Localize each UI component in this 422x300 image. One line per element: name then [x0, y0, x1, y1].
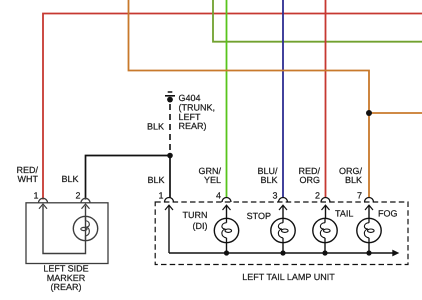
arrow pin 7 tail — [365, 205, 373, 210]
junction TAIL — [322, 250, 327, 255]
connector arc pin 2 left marker — [81, 198, 90, 202]
svg-text:LEFT TAIL LAMP UNIT: LEFT TAIL LAMP UNIT — [242, 272, 335, 282]
arrow pin 4 tail — [223, 205, 231, 210]
wire ORG/BLK (orange, top edge down, right, down to pin 7) — [129, 0, 370, 198]
wire BLU/BLK (blue, top edge down to pin 3) — [282, 0, 284, 198]
bulb FOG — [357, 218, 381, 242]
wire pin 4 to bulb — [226, 206, 228, 218]
svg-text:BLK: BLK — [147, 175, 164, 185]
wire bulb TAIL to bus — [324, 243, 326, 253]
svg-text:BLK: BLK — [345, 175, 362, 185]
arrow pin 1 tail — [165, 205, 173, 210]
bulb TAIL — [313, 218, 337, 242]
svg-text:BLK: BLK — [260, 175, 277, 185]
wire RED/WHT (red, top-left corner to right edge and down to pin 1 of left side marker) — [43, 14, 422, 200]
junction BLK — [167, 153, 173, 159]
svg-text:TURN: TURN — [183, 210, 208, 220]
left side marker connector box — [26, 203, 108, 264]
wire GRN (dull green, from top edge down then right to right edge) — [213, 0, 422, 42]
filament FOG — [368, 218, 370, 242]
svg-text:3: 3 — [272, 191, 277, 201]
svg-text:(DI): (DI) — [193, 221, 208, 231]
filament TURN — [226, 218, 228, 242]
wire pin 1 tail down — [168, 206, 170, 253]
svg-text:FOG: FOG — [378, 209, 398, 219]
wire BLK solid (junction to left marker pin 2 and down to tail lamp pin 1) — [86, 156, 171, 200]
svg-text:STOP: STOP — [247, 211, 271, 221]
wire pin 7 to bulb — [368, 206, 370, 218]
connector arc pin 2 tail — [321, 198, 330, 203]
wire GRN/YEL (bright green, top edge down to pin 4) — [226, 0, 228, 198]
svg-text:7: 7 — [357, 191, 362, 201]
svg-text:WHT: WHT — [18, 174, 39, 184]
svg-text:2: 2 — [75, 191, 80, 201]
svg-text:4: 4 — [216, 191, 221, 201]
arrow pin 1 left marker — [39, 204, 47, 209]
connector arc pin 1 tail — [165, 198, 174, 203]
svg-text:REAR): REAR) — [179, 121, 207, 131]
connector arc pin 4 tail — [222, 198, 231, 203]
filament TAIL — [324, 218, 326, 242]
wire ORG branch to right edge — [369, 112, 422, 114]
svg-text:1: 1 — [158, 191, 163, 201]
connector arc pin 7 tail — [365, 198, 374, 203]
junction FOG — [366, 250, 371, 255]
svg-text:ORG: ORG — [299, 175, 320, 185]
svg-text:1: 1 — [33, 191, 38, 201]
connector arc pin 1 left marker — [39, 198, 48, 202]
bulb STOP — [271, 218, 295, 242]
svg-text:YEL: YEL — [204, 175, 221, 185]
junction TURN — [224, 250, 229, 255]
svg-text:BLK: BLK — [147, 121, 164, 131]
svg-text:BLK: BLK — [61, 174, 78, 184]
svg-text:G404: G404 — [179, 93, 201, 103]
arrow pin 3 tail — [279, 205, 287, 210]
filament STOP — [282, 218, 284, 242]
connector arc pin 3 tail — [279, 198, 288, 203]
wire RED/ORG (red, top edge down to pin 2) — [325, 0, 327, 198]
wire pin 2 to bulb — [325, 206, 327, 218]
bulb TURN — [214, 218, 238, 242]
bus wire with arrow (tail lamp unit) — [169, 252, 394, 254]
wire bulb STOP to bus — [282, 243, 284, 253]
filament left side marker bulb — [85, 216, 87, 240]
bulb left side marker — [73, 216, 97, 240]
ground G404 symbol — [165, 92, 175, 103]
wire bulb TURN to bus — [226, 243, 228, 253]
svg-text:(REAR): (REAR) — [51, 282, 82, 292]
svg-text:TAIL: TAIL — [335, 209, 353, 219]
arrow pin 2 left marker — [82, 204, 90, 209]
junction STOP — [280, 250, 285, 255]
arrowhead bus — [392, 250, 399, 257]
internal wire U (left marker) — [43, 206, 86, 254]
wire bulb FOG to bus — [368, 243, 370, 253]
left tail lamp unit dashed box — [155, 202, 408, 265]
junction orange branch — [366, 110, 372, 116]
arrow pin 2 tail — [322, 205, 330, 210]
wire BLK dashed (ground lead from G404 down to junction) — [169, 104, 171, 151]
wire pin 3 to bulb — [282, 206, 284, 218]
svg-text:2: 2 — [315, 191, 320, 201]
